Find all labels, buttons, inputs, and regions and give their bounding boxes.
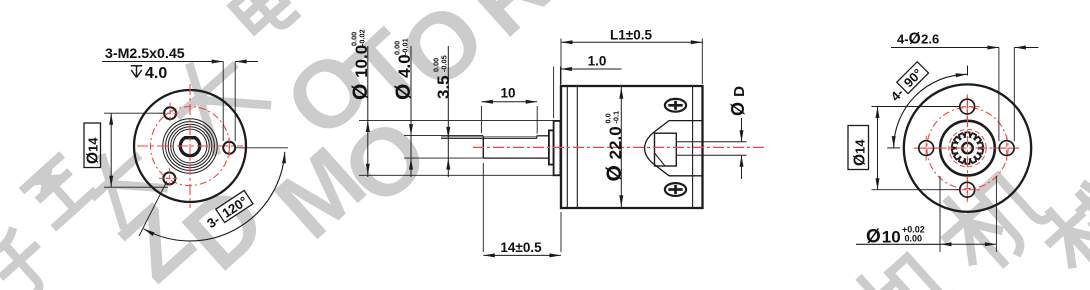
L1 dim line <box>561 41 702 43</box>
svg-text:-0.1: -0.1 <box>612 111 621 124</box>
ext line boss bottom <box>359 174 554 176</box>
1.0 ext right <box>559 67 561 119</box>
1.0 ext left <box>553 67 555 119</box>
ext line shaft top <box>404 135 483 137</box>
hub step circle r16.9 <box>173 129 207 163</box>
svg-text:10: 10 <box>500 86 515 101</box>
depth symbol <box>131 66 142 78</box>
Ø14 extension line top <box>104 112 166 114</box>
svg-text:4.0: 4.0 <box>145 65 167 82</box>
Ø14 right ext bottom <box>872 189 960 191</box>
flat top line 2 <box>441 137 537 139</box>
extension line hole left tangent <box>222 62 224 142</box>
Ø4.0 dim line <box>410 46 412 177</box>
flat step <box>536 136 538 139</box>
watermark: light gray diagonal "ZD MOTOR" + chinese-like characters <box>100 0 571 290</box>
arrow left at hole tangent <box>235 60 247 64</box>
red gear pitch circle <box>949 129 986 166</box>
rotated label ØD <box>728 86 748 116</box>
rear bushing rect <box>655 133 677 166</box>
svg-text:4-Ø2.6: 4-Ø2.6 <box>897 31 939 48</box>
ext line boss top <box>359 119 554 121</box>
label 3-120° rotated <box>203 190 253 231</box>
svg-text:Ø14: Ø14 <box>85 137 102 164</box>
watermark glyph hu <box>0 227 58 290</box>
left view flange outer circle Ø22 body <box>134 90 246 202</box>
arc arrow left end <box>144 229 155 236</box>
rear hole 1 Ø2.6 <box>960 99 975 114</box>
Ø14 right ext top <box>872 106 960 108</box>
phillips screw at y=105.3 <box>665 99 686 112</box>
watermark glyph ji <box>844 241 957 290</box>
svg-text:Ø 10.0: Ø 10.0 <box>349 45 372 100</box>
arc arrow top end <box>956 73 968 77</box>
rear shaft top line <box>676 141 746 143</box>
red crosshair rear hole 2 <box>955 189 980 191</box>
arc arrow right end <box>282 152 286 164</box>
RIGHT VIEW: motor rear face <box>848 31 1039 253</box>
14 ext right (body face) <box>560 212 562 252</box>
rotated label 10.0 <box>349 29 372 100</box>
svg-text:-0.02: -0.02 <box>358 29 367 46</box>
svg-text:3-M2.5x0.45: 3-M2.5x0.45 <box>105 46 185 62</box>
right view red centerlines <box>916 147 1020 149</box>
extension line hole right tangent <box>234 62 236 142</box>
Ø22 dim line <box>620 87 622 207</box>
red bolt circle <box>927 108 1008 189</box>
red crosshair hole bottom <box>159 177 180 179</box>
MIDDLE VIEW: side elevation <box>349 28 765 258</box>
bushing diagonal <box>655 153 666 166</box>
watermark glyph da <box>80 141 164 225</box>
watermark glyph ji <box>929 159 1051 281</box>
collar rect <box>549 130 554 164</box>
watermark glyph da <box>162 46 267 152</box>
end cap line <box>692 86 694 208</box>
Ø14 extension line bottom <box>104 186 168 188</box>
svg-text:Ø D: Ø D <box>728 86 748 116</box>
14 dim line <box>483 254 561 256</box>
red crosshair rear hole 1 <box>955 106 980 108</box>
Ø10.0 dim line <box>367 46 369 177</box>
gear bore circle <box>962 143 973 154</box>
ØD dim line lower <box>741 155 743 179</box>
red tick right hole <box>228 138 230 159</box>
hub step circle r21.8 <box>168 124 212 168</box>
watermark glyph dian <box>225 0 296 43</box>
motor body outline rect <box>561 86 703 208</box>
3.5 dim line <box>447 46 449 177</box>
arc arrow left end <box>892 136 896 148</box>
watermark glyph zhi <box>24 156 93 225</box>
svg-text:-0.01: -0.01 <box>400 38 409 55</box>
box around Ø14 label <box>84 123 101 168</box>
label Ø14 right rotated <box>852 139 869 166</box>
shaft tip edge <box>482 136 484 158</box>
mounting hole 3 M2.5 <box>163 172 175 184</box>
arrow right at hole tangent <box>212 60 224 64</box>
watermark glyph xie <box>1035 171 1090 282</box>
ØD dim line upper <box>741 118 743 142</box>
gearbox plate line 2 <box>576 86 578 208</box>
Ø10 pilot boss rect <box>554 121 561 175</box>
radial tick left <box>887 147 900 149</box>
rear end cap dome <box>645 121 703 176</box>
output shaft Ø4 thick D-ring with flat <box>180 138 199 156</box>
ext line shaft bottom <box>404 157 483 159</box>
shaft D-flat chord <box>183 137 197 139</box>
svg-text:L1±0.5: L1±0.5 <box>610 28 652 43</box>
LEFT VIEW: gearbox output face <box>84 46 288 241</box>
svg-text:-0.05: -0.05 <box>439 55 448 72</box>
shaft top edge full dia <box>537 135 549 137</box>
leader shelf 3-M2.5 <box>102 61 223 63</box>
rear pinion gear <box>952 132 983 163</box>
rear shaft bottom line <box>676 154 746 156</box>
3-120° arc dimension <box>144 152 285 241</box>
10 dim line <box>481 101 537 103</box>
4-Ø2.6 shelf <box>891 47 999 49</box>
ext line right hole left tangent <box>998 48 1000 142</box>
rear face outer circle <box>904 84 1031 211</box>
hub step circle r24.4 <box>166 122 215 171</box>
rear hole 2 Ø2.6 <box>960 182 975 197</box>
red bolt circle Ø14 <box>151 107 230 186</box>
hub step circle r19.3 <box>171 127 210 166</box>
Ø10 shelf line <box>856 243 940 245</box>
4-90° arc dimension <box>894 74 968 148</box>
rear bearing boss Ø10 thick circle <box>940 121 995 176</box>
svg-text:14±0.5: 14±0.5 <box>500 240 542 255</box>
shaft bottom edge <box>483 157 549 159</box>
svg-text:1.0: 1.0 <box>588 54 607 69</box>
box around Ø14 right <box>848 126 869 170</box>
svg-text:0.00: 0.00 <box>905 234 923 244</box>
Ø14 right dim line <box>877 107 879 190</box>
red crosshair rear hole 4 <box>994 147 1019 149</box>
14 ext left (shaft tip) <box>482 163 484 252</box>
10 dim ext left <box>480 106 482 133</box>
rotated label Ø22.0 <box>603 111 626 182</box>
hub step circle r27.2 <box>163 119 217 173</box>
svg-text:3.5: 3.5 <box>434 75 453 99</box>
Ø14 dimension line vertical <box>110 113 112 187</box>
rear hole 3 Ø2.6 <box>919 141 934 156</box>
mounting hole 2 M2.5 <box>164 107 176 119</box>
svg-text:Ø 22.0: Ø 22.0 <box>603 126 626 181</box>
radial tick top <box>967 66 969 76</box>
red crosshair rear hole 3 <box>914 147 939 149</box>
rotated label 3.5 <box>431 55 453 99</box>
label Ø14 rotated <box>85 137 102 164</box>
mounting hole 1 M2.5 <box>223 142 235 154</box>
1.0 shelf <box>560 68 621 70</box>
Ø10 ext left tangent <box>939 176 941 252</box>
svg-text:Ø14: Ø14 <box>852 139 869 166</box>
Ø10 dim line <box>940 243 996 245</box>
label 4-90° rotated <box>887 62 929 104</box>
L1 ext right <box>701 39 703 85</box>
10 dim ext right <box>536 106 538 134</box>
radial extension right hole <box>236 147 288 149</box>
red crosshair hole tl <box>160 112 181 114</box>
Ø10 ext right tangent <box>995 176 997 252</box>
rotated label 4.0 <box>392 38 415 100</box>
middle view red centerline <box>473 146 765 148</box>
rear hole 4 Ø2.6 <box>999 141 1014 156</box>
phillips screw at y=189.5 <box>665 183 686 196</box>
ext line right hole right tangent <box>1013 48 1015 142</box>
flat top line 1 <box>441 136 537 138</box>
radial extension bottom hole <box>139 182 167 237</box>
gearbox front plate line <box>566 86 568 208</box>
left view red centerlines <box>137 145 243 147</box>
L1 ext left <box>560 39 562 85</box>
